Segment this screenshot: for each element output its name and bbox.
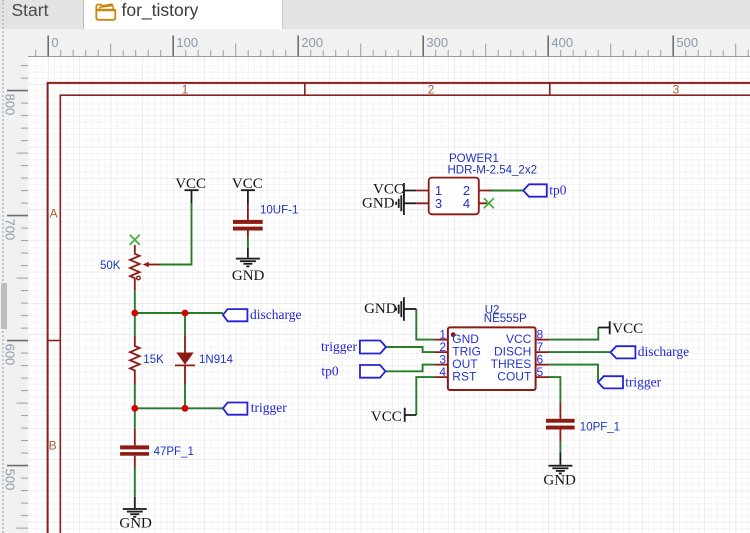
svg-text:800: 800 [3, 94, 18, 116]
svg-text:500: 500 [3, 469, 18, 491]
svg-text:GND: GND [232, 268, 265, 284]
svg-text:VCC: VCC [232, 176, 263, 192]
svg-text:4: 4 [439, 365, 446, 379]
svg-text:GND: GND [543, 473, 576, 489]
svg-text:200: 200 [301, 35, 323, 50]
svg-text:VCC: VCC [612, 321, 643, 337]
svg-text:RST: RST [452, 369, 477, 383]
svg-text:4: 4 [463, 196, 470, 211]
svg-text:100: 100 [176, 35, 198, 50]
svg-text:GND: GND [362, 196, 395, 212]
svg-text:500: 500 [676, 35, 698, 50]
svg-text:700: 700 [3, 219, 18, 241]
svg-text:B: B [49, 439, 57, 453]
svg-text:3: 3 [435, 196, 442, 211]
svg-text:GND: GND [364, 301, 397, 317]
svg-text:discharge: discharge [250, 307, 301, 322]
svg-text:VCC: VCC [175, 176, 206, 192]
svg-text:10PF_1: 10PF_1 [580, 422, 620, 434]
svg-text:discharge: discharge [638, 344, 689, 359]
svg-text:400: 400 [551, 35, 573, 50]
svg-text:A: A [50, 207, 58, 221]
svg-text:tp0: tp0 [321, 363, 339, 378]
svg-text:POWER1: POWER1 [449, 153, 499, 165]
svg-text:47PF_1: 47PF_1 [154, 446, 194, 458]
svg-text:NE555P: NE555P [484, 313, 527, 325]
svg-text:1N914: 1N914 [199, 354, 233, 366]
svg-text:3: 3 [673, 83, 680, 97]
svg-text:10UF-1: 10UF-1 [260, 205, 298, 217]
svg-text:5: 5 [537, 365, 544, 379]
svg-text:GND: GND [119, 516, 152, 532]
svg-text:trigger: trigger [251, 400, 287, 415]
svg-text:HDR-M-2.54_2x2: HDR-M-2.54_2x2 [448, 165, 537, 177]
svg-text:COUT: COUT [497, 369, 532, 383]
svg-text:VCC: VCC [371, 409, 402, 425]
svg-text:1: 1 [182, 83, 189, 97]
svg-text:50K: 50K [100, 260, 121, 272]
svg-text:tp0: tp0 [549, 183, 567, 198]
svg-text:trigger: trigger [321, 339, 357, 354]
svg-text:15K: 15K [143, 354, 164, 366]
svg-text:trigger: trigger [625, 374, 661, 389]
svg-text:300: 300 [426, 35, 448, 50]
svg-text:600: 600 [3, 344, 18, 366]
svg-text:2: 2 [428, 83, 435, 97]
svg-text:0: 0 [51, 35, 58, 50]
